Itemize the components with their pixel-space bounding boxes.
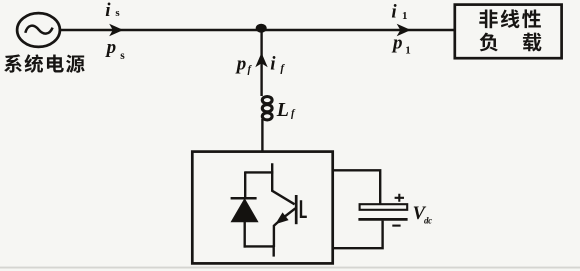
ac source circle [17, 13, 60, 47]
svg-text:1: 1 [405, 44, 411, 56]
wire: diode branch top [244, 171, 246, 198]
IGBT second bar L mark [301, 200, 307, 217]
svg-text:s: s [120, 50, 125, 62]
svg-text:L: L [276, 99, 289, 121]
wire: junction to load box [260, 29, 454, 31]
nonlinear load box [455, 5, 562, 59]
inductor Lf coil loop 3 [262, 113, 272, 120]
wire: inner top rail [245, 171, 273, 173]
wire: vertical junction down to inductor [260, 28, 262, 96]
label: nonlinear load text line 1 非线性 [479, 9, 541, 28]
diode triangle (anode) [232, 200, 257, 222]
svg-text:p: p [105, 37, 117, 58]
svg-text:i: i [270, 53, 276, 74]
capacitor Cdc top plate [360, 204, 408, 210]
label: system power source text 系统电源 [4, 54, 85, 73]
wire: inductor to APF box top [261, 119, 263, 153]
minus sign of Vdc [392, 225, 400, 227]
APF inverter box [192, 152, 332, 264]
wire: inner collector vertical and diagonal to bar [272, 163, 294, 204]
capacitor Cdc bottom plate [358, 218, 407, 221]
svg-text:i: i [391, 2, 397, 23]
plus sign of Vdc [395, 194, 404, 202]
IGBT emitter diagonal [284, 208, 296, 217]
svg-text:p: p [391, 32, 403, 53]
IGBT emitter arrowhead [277, 213, 288, 223]
svg-text:i: i [105, 0, 111, 21]
wire: source to junction [60, 29, 263, 31]
junction node dot [256, 24, 267, 33]
arrow head: is on source wire [109, 24, 123, 36]
arrow head: if upward [255, 53, 267, 67]
wire: emitter stub to box bottom [273, 245, 275, 256]
svg-text:s: s [115, 7, 120, 19]
arrow head: i1 toward load [397, 24, 411, 36]
wire: emitter lead down [274, 222, 278, 247]
IGBT main bar [295, 195, 298, 224]
svg-text:dc: dc [424, 216, 432, 226]
svg-text:1: 1 [402, 10, 408, 22]
svg-text:p: p [235, 53, 247, 74]
inductor Lf coil loop 2 [262, 105, 272, 112]
wire: bottom connector rail [244, 245, 274, 247]
wire: diode branch bottom [243, 221, 245, 248]
inductor Lf coil loop 1 [262, 97, 272, 104]
diode cathode bar [231, 197, 257, 200]
ac source sine wave [25, 26, 52, 34]
wire: box to capacitor top [332, 170, 380, 204]
wire: capacitor bottom return [332, 221, 383, 249]
label: nonlinear load text line 2 负载 [480, 33, 542, 52]
scan artifact streak at bottom [0, 267, 580, 269]
